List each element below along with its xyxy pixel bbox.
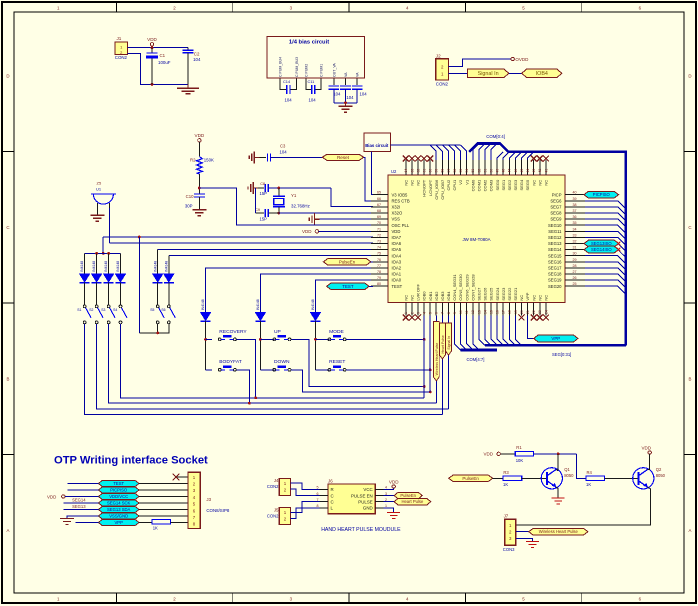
wire IOB4 down to L5 [448, 316, 450, 409]
svg-text:SEG13: SEG13 [72, 504, 86, 509]
IC pin 25 SEG20 [548, 282, 585, 289]
svg-text:C14: C14 [283, 79, 291, 84]
svg-text:SEG14ISO: SEG14ISO [591, 247, 612, 252]
svg-text:SEG14: SEG14 [72, 497, 86, 502]
wire R3 to Q1 base [522, 477, 547, 479]
IC pin 50 COM3 (top) [489, 160, 494, 191]
svg-text:PICPISO: PICPISO [110, 488, 128, 493]
IC pin 27 SEG18 [548, 270, 585, 277]
svg-text:IOB4: IOB4 [446, 291, 451, 301]
ground at OTP [60, 518, 74, 520]
wire TEST stub [68, 483, 99, 485]
svg-text:COM3: COM3 [489, 179, 494, 191]
capacitor C8 15P [258, 182, 268, 196]
wire PICPISO stub [68, 489, 99, 491]
svg-text:SEG19: SEG19 [548, 278, 562, 283]
svg-text:IN4148: IN4148 [116, 261, 120, 272]
svg-text:R: R [331, 487, 334, 492]
svg-text:VDD: VDD [302, 229, 312, 234]
wire S2 to line L5 [97, 324, 449, 409]
wire IOA6 line [110, 242, 374, 244]
svg-text:SEG12: SEG12 [548, 235, 562, 240]
IC pin 71 VDD [371, 227, 400, 234]
diode rail group1 [85, 252, 121, 254]
svg-text:CON2: CON2 [267, 513, 279, 518]
svg-text:PICP: PICP [552, 192, 562, 197]
junction IOA7 to key drop [138, 236, 141, 239]
wire DOWN out to L2 [291, 370, 430, 392]
svg-text:NC: NC [519, 295, 524, 301]
svg-text:61: 61 [423, 169, 427, 173]
svg-text:S4: S4 [113, 308, 117, 312]
wire buzzer to IOA6 line [109, 208, 111, 243]
svg-text:104: 104 [333, 92, 341, 97]
bus entry SEG21 [515, 316, 521, 346]
svg-text:C3: C3 [280, 143, 286, 148]
svg-text:55: 55 [459, 169, 463, 173]
IC pin 64 NC (top) [403, 160, 408, 186]
svg-text:VDD: VDD [47, 494, 56, 499]
svg-text:CON2: CON2 [115, 55, 128, 60]
svg-text:COM1: COM1 [477, 179, 482, 191]
svg-text:NC: NC [403, 180, 408, 186]
svg-text:PULSE: PULSE [358, 499, 372, 504]
port Reset [322, 154, 363, 160]
svg-text:NC: NC [531, 180, 536, 186]
svg-text:15P: 15P [260, 217, 268, 222]
bus entry SEG22 [509, 316, 515, 346]
svg-text:57: 57 [447, 169, 451, 173]
svg-text:25: 25 [573, 282, 577, 286]
svg-text:D: D [6, 74, 9, 79]
svg-text:GND: GND [363, 506, 373, 511]
IC pin 69 VSS [371, 215, 400, 222]
svg-text:OUT_VA: OUT_VA [333, 63, 337, 77]
diode D9 IN4148 [311, 299, 321, 370]
ground at J7 [526, 541, 539, 543]
svg-text:J6: J6 [328, 478, 333, 483]
svg-text:R3: R3 [503, 470, 509, 475]
svg-text:7: 7 [441, 312, 445, 314]
svg-text:S3: S3 [101, 308, 105, 312]
wire drop to S5/S6 rail [138, 237, 140, 333]
svg-text:V2: V2 [458, 179, 463, 185]
IC pin 47 SEG2 (top) [507, 160, 512, 190]
svg-text:32.768Hz: 32.768Hz [291, 203, 310, 208]
svg-text:30: 30 [573, 252, 577, 256]
wire R4 to Q2 base [605, 477, 639, 479]
bus entry CON5_SEG30 [461, 316, 467, 351]
IC pin 18 SEG22 (bottom) [507, 287, 512, 316]
IC pin 54 V1 (top) [464, 160, 469, 185]
button MODE [328, 329, 346, 341]
IC pin 2 NC (bottom) [410, 295, 415, 316]
svg-text:38: 38 [573, 203, 577, 207]
svg-text:52: 52 [477, 169, 481, 173]
IC pin 17 SEG23 (bottom) [501, 287, 506, 316]
IC pin 34 SEG11 [548, 227, 585, 234]
svg-text:SEG11: SEG11 [548, 229, 562, 234]
wire IOA1 to key column 2 [260, 274, 373, 313]
svg-text:C: C [331, 493, 334, 498]
svg-text:76: 76 [377, 258, 381, 262]
wire IOA5 line [158, 249, 373, 251]
svg-text:9: 9 [453, 312, 457, 314]
IC pin 72 IOA7 [371, 233, 402, 240]
svg-text:CPU2: CPU2 [446, 179, 451, 190]
port PulseEn at Q1 [449, 475, 493, 481]
module J6 HAND HEART PULSE [317, 478, 388, 513]
wire bias box to V3 pin 65 [372, 152, 374, 195]
port IOB4 [522, 69, 562, 78]
wire SEG8 to SEG bus [585, 213, 626, 221]
svg-text:5: 5 [429, 312, 433, 314]
wire PULSE EN to port [384, 495, 395, 497]
button BODYFAT [218, 359, 241, 371]
bus entry SEG5 [528, 152, 534, 160]
wire R2/C10 to OSC PLL pin [199, 188, 373, 225]
svg-text:SEG27: SEG27 [477, 287, 482, 301]
svg-text:2: 2 [410, 312, 414, 314]
wire line L1 from UP button [291, 339, 424, 386]
svg-text:C8: C8 [260, 182, 265, 186]
port Wireless Heart Pulse [529, 528, 588, 535]
svg-text:70: 70 [377, 221, 381, 225]
IC pin 62 NC (top) [416, 160, 421, 186]
IC pin 53 COM0 (top) [470, 160, 475, 191]
resistor R4 1K [586, 470, 605, 487]
svg-text:BODYFAT: BODYFAT [219, 359, 241, 365]
wire SEG19 to SEG bus [585, 280, 626, 288]
svg-text:S2: S2 [89, 308, 93, 312]
switch S6 [161, 305, 175, 324]
svg-text:32: 32 [573, 240, 577, 244]
svg-text:104: 104 [309, 97, 317, 102]
svg-text:45: 45 [520, 169, 524, 173]
bus COM[4:7] [461, 349, 498, 352]
IC pin 74 IOA5 [371, 246, 402, 253]
svg-text:C2: C2 [194, 52, 200, 57]
svg-text:IN4148: IN4148 [153, 261, 157, 272]
connector J7 CON3 [503, 514, 516, 552]
no-connect X marks bottom pins [403, 315, 549, 321]
wire J7.3 to ground [516, 538, 533, 541]
wire IOA4 line [169, 255, 373, 257]
wire J1.1 to VDD node [128, 47, 189, 49]
IC pin 78 IOA1 [371, 270, 402, 277]
bus entry SEG1 [503, 152, 509, 160]
svg-text:NC: NC [410, 295, 415, 301]
connector J1 [115, 36, 128, 60]
svg-text:62: 62 [416, 169, 420, 173]
svg-text:23: 23 [538, 310, 542, 314]
svg-text:24: 24 [544, 310, 548, 314]
IC pin 11 CON6_SEG29 (bottom) [464, 274, 469, 316]
button DOWN [273, 359, 291, 371]
ground at C10 [192, 209, 206, 211]
port SEG13 SDA (OTP) [98, 506, 139, 512]
ground at VSS pin [315, 218, 320, 220]
svg-text:33: 33 [573, 233, 577, 237]
IC pin 60 LCNOPT (top) [428, 160, 433, 196]
svg-text:IOB0: IOB0 [422, 291, 427, 301]
bus entry COM2 [485, 144, 491, 161]
power VDD at R2 [195, 133, 205, 157]
svg-text:12: 12 [471, 310, 475, 314]
svg-text:16: 16 [496, 310, 500, 314]
wire IOA7 line [103, 236, 373, 238]
svg-text:VPP: VPP [115, 520, 124, 525]
svg-text:49: 49 [496, 169, 500, 173]
port SEG13ISO [584, 240, 619, 247]
junction crystal top [277, 187, 280, 190]
svg-text:Z5: Z5 [97, 181, 102, 186]
IC pin 8 IOB4 (bottom) [446, 291, 451, 316]
svg-text:PICPISO: PICPISO [593, 192, 611, 197]
svg-text:J4: J4 [274, 478, 279, 483]
button RESET [328, 359, 346, 371]
svg-text:14: 14 [483, 310, 487, 314]
wire C9 to ground node [255, 188, 257, 213]
bus entry SEG27 [479, 316, 485, 346]
svg-text:OSC PLL: OSC PLL [392, 223, 410, 228]
port TEST (OTP) [98, 480, 139, 486]
svg-text:77: 77 [377, 264, 381, 268]
IC pin 1 NC (bottom) [403, 295, 408, 316]
wire J1.2 to ground rail [128, 53, 189, 84]
diode D2 IN4148 [92, 253, 102, 305]
IC pin 41 NC (top) [544, 160, 549, 186]
svg-text:IN4148: IN4148 [92, 261, 96, 272]
power VDD at J6 VCC [384, 479, 400, 489]
IC pin 26 SEG19 [548, 276, 585, 283]
wire bias out to CPU pins [391, 144, 461, 146]
svg-text:104: 104 [280, 150, 288, 155]
svg-text:C PUM_BU3: C PUM_BU3 [295, 57, 299, 77]
port SEG14 SCK (OTP) [98, 500, 139, 506]
IC pin 67 X32I [371, 203, 400, 210]
svg-text:HAND HEART PULSE MOUDULE: HAND HEART PULSE MOUDULE [321, 527, 401, 533]
svg-text:UP: UP [274, 329, 281, 335]
svg-text:IN4148: IN4148 [201, 299, 205, 310]
svg-text:Reset: Reset [337, 155, 350, 160]
power VDD at OTP [47, 494, 65, 499]
svg-text:NC: NC [416, 180, 421, 186]
svg-text:LCNOPT: LCNOPT [428, 179, 433, 196]
svg-text:3: 3 [416, 312, 420, 314]
svg-text:47: 47 [508, 169, 512, 173]
svg-text:100uF: 100uF [158, 60, 171, 65]
svg-text:A: A [689, 528, 692, 533]
svg-text:HCNOPT: HCNOPT [422, 179, 427, 196]
wire SEG6 to SEG bus [585, 201, 626, 209]
svg-text:80: 80 [377, 282, 381, 286]
wire VSS to IC [320, 218, 374, 220]
svg-text:1K: 1K [503, 482, 508, 487]
svg-text:C10: C10 [186, 194, 194, 199]
svg-text:DOWN: DOWN [274, 359, 290, 365]
connector J3 CON8/SIP8 [188, 472, 230, 528]
ground at C2 [177, 84, 199, 93]
svg-text:NC: NC [537, 180, 542, 186]
IC pin 46 SEG3 (top) [513, 160, 518, 190]
switch S3 [101, 305, 115, 324]
diode D3 IN4148 [104, 253, 114, 305]
IC pin 51 COM2 (top) [483, 160, 488, 191]
IC pin 9 CON4_SEG31 (bottom) [452, 274, 457, 316]
svg-text:18: 18 [508, 310, 512, 314]
wire C3 to Reset port [271, 156, 323, 158]
wires OTP ports to J3 [139, 483, 188, 485]
svg-text:42: 42 [538, 169, 542, 173]
svg-text:COM[4:7]: COM[4:7] [467, 357, 485, 362]
svg-text:44: 44 [526, 169, 530, 173]
wire J5.1 to J6 C [291, 502, 320, 513]
IC pin 32 SEG13 [548, 240, 585, 247]
svg-text:PULSE EN: PULSE EN [351, 493, 373, 498]
button RECOVERY [218, 329, 247, 341]
svg-text:Q1: Q1 [564, 467, 570, 472]
svg-text:36: 36 [573, 215, 577, 219]
svg-text:SEG13: SEG13 [548, 241, 562, 246]
wire SEG7 to SEG bus [585, 207, 626, 215]
wire GND to ground [384, 508, 394, 513]
svg-text:10: 10 [459, 310, 463, 314]
IC pin 59 CPU_IOB6 (top) [434, 160, 439, 200]
svg-text:J5: J5 [274, 507, 279, 512]
svg-text:64: 64 [404, 169, 408, 173]
svg-text:VSS/GND: VSS/GND [109, 514, 128, 519]
svg-text:13: 13 [477, 310, 481, 314]
svg-text:VA: VA [344, 72, 348, 77]
ground at Q1 [552, 497, 565, 499]
port PICPISO [581, 194, 584, 196]
svg-text:CON4_SEG31: CON4_SEG31 [452, 274, 457, 301]
capacitor C10 30P [185, 194, 205, 210]
svg-text:60: 60 [429, 169, 433, 173]
svg-text:IN4148: IN4148 [104, 261, 108, 272]
svg-text:VDD: VDD [195, 133, 205, 138]
svg-text:Heart Pulse: Heart Pulse [401, 499, 424, 504]
IC pin 79 IOA0 [371, 276, 402, 283]
port VSS/GND (OTP) [98, 513, 139, 519]
svg-text:OTP Writing interface Socket: OTP Writing interface Socket [54, 455, 208, 467]
svg-text:78: 78 [377, 270, 381, 274]
svg-text:NC: NC [531, 295, 536, 301]
wire VPP to R5 [139, 522, 152, 524]
svg-text:SEG18: SEG18 [548, 272, 562, 277]
port PICPISO (OTP) [98, 487, 139, 493]
svg-text:21: 21 [526, 310, 530, 314]
port TEST at pin 80 [327, 283, 370, 290]
diode D6 IN4148 [164, 256, 174, 305]
svg-text:29: 29 [573, 258, 577, 262]
IC pin 33 SEG12 [548, 233, 585, 240]
capacitors C4 C5 C6 104 [329, 78, 368, 104]
wire SEG9 to SEG bus [585, 219, 626, 227]
connector J2 [436, 53, 449, 86]
svg-text:58: 58 [441, 169, 445, 173]
wire IOA2 to key column 1 [206, 268, 373, 313]
no-connect X marks top pins [403, 156, 549, 162]
wire R2 to C10 [198, 174, 200, 194]
transistor Q1 8050 [541, 467, 574, 489]
wire SEG14 stub [63, 502, 98, 504]
svg-text:63: 63 [410, 169, 414, 173]
svg-text:SEG23: SEG23 [501, 287, 506, 301]
wire port to R3 [493, 477, 503, 479]
svg-text:B: B [689, 377, 692, 382]
wire SEG14 to SEG bus [585, 250, 626, 258]
wire MODE out to IOB0 [346, 338, 424, 340]
svg-text:27: 27 [573, 270, 577, 274]
junction Q1 collector node [557, 452, 560, 455]
svg-text:72: 72 [377, 233, 381, 237]
wire X32O to IC [279, 212, 373, 214]
bus entry SEG23 [503, 316, 509, 346]
svg-text:VCC: VCC [363, 487, 372, 492]
svg-text:Q2: Q2 [656, 467, 662, 472]
power OVDD [511, 57, 529, 62]
svg-text:40: 40 [573, 191, 577, 195]
svg-text:SEG10: SEG10 [548, 223, 562, 228]
svg-text:U1: U1 [96, 187, 102, 192]
svg-text:JW 8M-T080A: JW 8M-T080A [462, 237, 490, 242]
svg-text:SEG9: SEG9 [550, 217, 562, 222]
wire SEG11 to SEG bus [585, 231, 626, 239]
svg-text:4: 4 [423, 312, 427, 314]
IC pin 30 SEG15 [548, 252, 585, 259]
IC pin 29 SEG16 [548, 258, 585, 265]
wire SEG18 to SEG bus [585, 274, 626, 282]
svg-text:41: 41 [544, 169, 548, 173]
bus entry CON7_SEG28 [473, 316, 479, 351]
svg-text:IN4148: IN4148 [256, 299, 260, 310]
IC pin 22 NC (bottom) [531, 295, 536, 316]
ground at J6 [387, 512, 400, 514]
port Wireless Heart Pulse (vertical) [433, 322, 439, 381]
wire crystal top node [268, 187, 331, 189]
wire R5 to J3.8 [171, 522, 188, 524]
wire VPP stub [76, 522, 99, 524]
svg-text:34: 34 [573, 227, 577, 231]
svg-text:30P: 30P [185, 204, 193, 209]
svg-text:COM2: COM2 [483, 179, 488, 191]
svg-text:MODE: MODE [329, 329, 344, 335]
buzzer B1 [91, 181, 116, 215]
IC pin 76 IOA3 [371, 258, 402, 265]
svg-text:7: 7 [317, 498, 319, 502]
svg-text:R4: R4 [587, 470, 593, 475]
svg-text:J7: J7 [504, 514, 509, 519]
svg-text:PulseEn: PulseEn [400, 493, 416, 498]
svg-text:SEG5: SEG5 [525, 179, 530, 190]
junction riser at diode rail [102, 252, 105, 255]
switch S2 [89, 305, 103, 324]
junction MODE at IOB0 [423, 338, 426, 341]
svg-text:6: 6 [435, 312, 439, 314]
svg-text:PulseEn: PulseEn [462, 476, 479, 481]
svg-text:28: 28 [573, 264, 577, 268]
svg-text:SEG14 SCK: SEG14 SCK [107, 501, 130, 506]
IC pin 12 CON7_SEG28 (bottom) [470, 274, 475, 316]
IC pin 24 NC (bottom) [544, 295, 549, 316]
IC pin 45 SEG4 (top) [519, 160, 524, 190]
svg-text:SEG15: SEG15 [548, 253, 562, 258]
wire SEG13 to SEG bus [585, 244, 626, 252]
switch S4 [113, 305, 127, 324]
1/4 bias circuit block [267, 37, 364, 79]
